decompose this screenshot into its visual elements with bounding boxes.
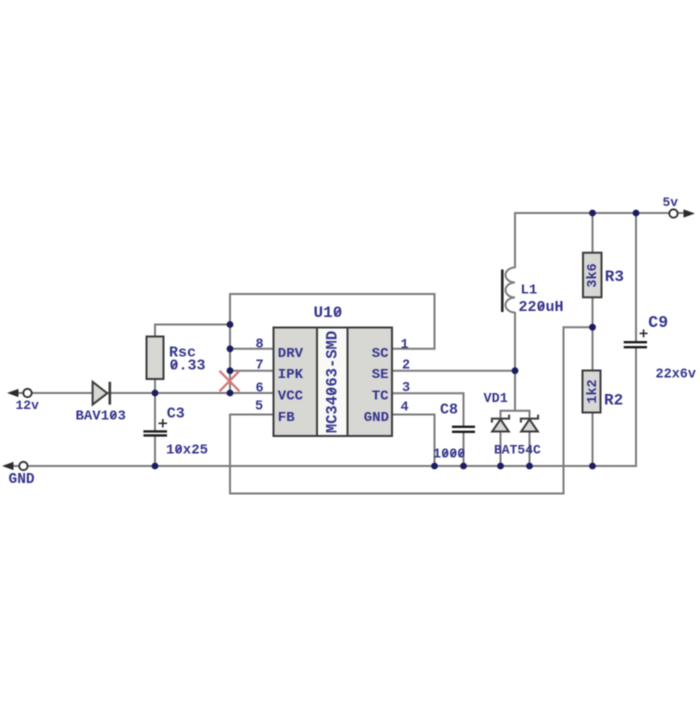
wire FB feedback net	[230, 327, 593, 493]
wire R2 stubs	[592, 327, 594, 466]
label R2	[604, 392, 623, 410]
svg-text:DRV: DRV	[278, 346, 304, 362]
wire 12v input rail	[10, 392, 274, 394]
diode VD1a (BAT54C left)	[492, 415, 509, 432]
svg-text:C9: C9	[648, 313, 668, 332]
node junction pin8 bus	[227, 345, 234, 352]
svg-text:1: 1	[400, 338, 408, 353]
wire VD1 anode downs	[501, 431, 530, 466]
svg-text:SC: SC	[372, 346, 389, 362]
node junction R3/R2 divider	[589, 324, 596, 331]
no-connect X marker	[220, 371, 240, 392]
inductor L1	[502, 268, 515, 313]
svg-text:22x6v: 22x6v	[656, 368, 697, 383]
wire L1 top segment	[514, 212, 516, 268]
pin label SE	[372, 367, 389, 383]
svg-text:3k6: 3k6	[586, 263, 601, 287]
label C3 value	[166, 443, 208, 459]
node junction VCC bus	[227, 390, 234, 397]
svg-text:BAT54C: BAT54C	[494, 443, 541, 458]
label C8 value	[433, 448, 465, 463]
svg-text:1k2: 1k2	[586, 379, 601, 403]
svg-text:FB: FB	[278, 410, 295, 426]
label R3 value 3k6	[586, 263, 601, 287]
wire L1 bottom segment	[514, 312, 516, 412]
wire SE pin 2 to L1	[392, 370, 515, 372]
svg-text:MC34063-SMD: MC34063-SMD	[324, 331, 342, 433]
svg-text:TC: TC	[372, 388, 389, 404]
label 5v	[663, 195, 679, 210]
svg-text:12v: 12v	[16, 398, 40, 413]
svg-text:0.33: 0.33	[170, 358, 206, 375]
pin label IPK	[278, 367, 304, 383]
pin label VCC	[278, 388, 304, 404]
wire VD1 top bracket	[501, 411, 530, 418]
label BAV103	[76, 409, 126, 425]
node junction C8 gnd	[460, 463, 467, 470]
node junction Rsc/C3 rail	[152, 390, 159, 397]
node junction VD1a gnd	[497, 463, 504, 470]
node junction VD1b gnd	[526, 463, 533, 470]
svg-text:4: 4	[400, 400, 408, 415]
label C9 value	[656, 368, 697, 383]
wire IPK pin 7 stub	[230, 370, 274, 372]
node junction SE/L1	[512, 367, 519, 374]
pin number 6	[255, 381, 263, 396]
diode D1 BAV103	[93, 382, 110, 405]
svg-text:VCC: VCC	[278, 388, 304, 404]
pin label SC	[372, 346, 389, 362]
pin number 5	[255, 399, 263, 414]
node junction pin7 bus	[227, 367, 234, 374]
pin number 7	[255, 359, 263, 374]
wire GND pin 4 down	[392, 415, 435, 467]
wire top loop to SC pin 1	[230, 294, 435, 349]
node junction R2 gnd	[589, 463, 596, 470]
label U10	[314, 304, 343, 322]
pin number 3	[402, 381, 410, 396]
terminal 5v output	[669, 209, 693, 217]
svg-text:7: 7	[255, 359, 263, 374]
node junction R3 top rail	[589, 210, 596, 217]
svg-text:BAV103: BAV103	[76, 409, 126, 425]
svg-text:3: 3	[402, 381, 410, 396]
svg-text:R2: R2	[604, 392, 623, 410]
label GND	[9, 472, 35, 488]
wire GND rail	[5, 465, 637, 467]
svg-text:C8: C8	[440, 402, 458, 419]
label C3	[167, 405, 185, 422]
svg-text:R3: R3	[605, 268, 624, 286]
resistor R3	[583, 253, 602, 298]
node junction Rsc top bus	[227, 321, 234, 328]
label VD1	[484, 392, 508, 407]
svg-text:5: 5	[255, 399, 263, 414]
svg-text:GND: GND	[364, 410, 389, 426]
pin number 1	[400, 338, 408, 353]
wire C3 branch	[154, 393, 156, 466]
label L1	[521, 283, 538, 299]
label C8	[440, 402, 458, 419]
capacitor C8	[452, 427, 475, 432]
svg-text:VD1: VD1	[484, 392, 508, 407]
capacitor C3	[143, 419, 167, 435]
svg-text:U10: U10	[314, 304, 343, 322]
pin label DRV	[278, 346, 304, 362]
pin number 8	[255, 338, 263, 353]
resistor Rsc	[147, 337, 164, 380]
capacitor C9	[624, 329, 648, 347]
svg-text:C3: C3	[167, 405, 185, 422]
svg-text:IPK: IPK	[278, 367, 304, 383]
svg-text:SE: SE	[372, 367, 389, 383]
pin number 2	[402, 358, 410, 373]
wire 5v output rail	[515, 212, 689, 214]
label C9	[648, 313, 668, 332]
label BAT54C	[494, 443, 541, 458]
label R2 value 1k2	[586, 379, 601, 403]
diode VD1b (BAT54C right)	[521, 415, 538, 432]
wire R3 stubs	[592, 213, 594, 327]
node junction pin4 gnd	[431, 463, 438, 470]
label R3	[605, 268, 624, 286]
pin number 4	[400, 400, 408, 415]
label Rsc value	[169, 345, 206, 375]
wire Rsc bottom stub	[154, 379, 156, 393]
terminal GND	[4, 462, 28, 470]
wire vertical bus left of U10	[229, 293, 231, 393]
svg-text:5v: 5v	[663, 195, 679, 210]
svg-text:10x25: 10x25	[166, 443, 208, 459]
resistor R2	[583, 371, 601, 413]
wire TC pin 3 to C8	[392, 393, 464, 466]
svg-text:6: 6	[255, 381, 263, 396]
node junction C9 top rail	[633, 210, 640, 217]
label 12v	[16, 398, 40, 413]
op-amp U1 MC34063 body	[274, 328, 393, 437]
node junction C3 gnd	[152, 463, 159, 470]
pin label FB	[278, 410, 295, 426]
wire VD1 common cathode link	[514, 371, 516, 411]
pin label TC	[372, 388, 389, 404]
svg-text:8: 8	[255, 338, 263, 353]
svg-text:GND: GND	[9, 472, 35, 488]
wire Rsc top link	[155, 325, 230, 339]
wire DRV pin 8 stub	[230, 348, 274, 350]
wire C9 branch	[635, 213, 637, 466]
label MC34063-SMD	[324, 331, 342, 433]
svg-text:L1: L1	[521, 283, 538, 299]
pin label GND	[364, 410, 389, 426]
label L1 value	[519, 299, 564, 316]
terminal 12v input	[9, 389, 32, 397]
svg-text:2: 2	[402, 358, 410, 373]
